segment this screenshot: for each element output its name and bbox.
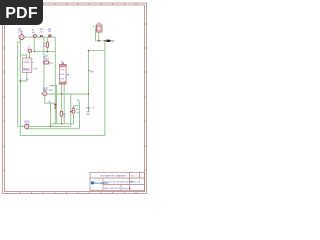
svg-text:USB: USB: [97, 23, 102, 25]
svg-text:▪-2: ▪-2: [93, 26, 97, 28]
svg-text:R: R: [93, 107, 95, 109]
svg-text:B+: B+: [91, 71, 95, 73]
svg-text:EasyEDA: EasyEDA: [94, 181, 108, 185]
svg-text:GRN: GRN: [25, 124, 30, 126]
svg-text:Date: 2017-07-15: Date: 2017-07-15: [104, 187, 121, 190]
svg-text:1N5: 1N5: [48, 31, 51, 33]
svg-text:BT: BT: [26, 79, 29, 81]
svg-text:Rev: 1: Rev: 1: [131, 175, 138, 177]
svg-text:TP405: TP405: [23, 62, 30, 64]
svg-text:PROG: PROG: [23, 70, 30, 72]
svg-text:5K1: 5K1: [50, 63, 53, 65]
svg-text:10u: 10u: [27, 49, 30, 51]
svg-text:Sheet: 1/1: Sheet: 1/1: [131, 181, 141, 184]
svg-text:RED: RED: [43, 90, 48, 92]
svg-text:2A: 2A: [32, 31, 35, 34]
svg-text:+1: +1: [88, 110, 90, 112]
svg-text:BAT+: BAT+: [86, 106, 92, 109]
svg-text:1N: 1N: [40, 31, 43, 33]
svg-text:Design: LIPO PULSE ROUTER: Design: LIPO PULSE ROUTER: [104, 182, 134, 184]
svg-text:Drawn By:: Drawn By:: [122, 187, 132, 190]
svg-text:GND: GND: [48, 90, 53, 92]
svg-text:SS8: SS8: [18, 31, 23, 33]
svg-text:4.7k: 4.7k: [44, 60, 48, 62]
svg-text:5V: 5V: [112, 40, 115, 43]
svg-text:LIPO BATTERY CHARGER: LIPO BATTERY CHARGER: [100, 174, 126, 177]
svg-text:4.7R: 4.7R: [33, 68, 38, 70]
svg-text:1N: 1N: [76, 113, 79, 115]
svg-text:8: 8: [27, 60, 28, 62]
svg-text:1k: 1k: [63, 116, 65, 118]
svg-text:D4: D4: [76, 109, 78, 111]
